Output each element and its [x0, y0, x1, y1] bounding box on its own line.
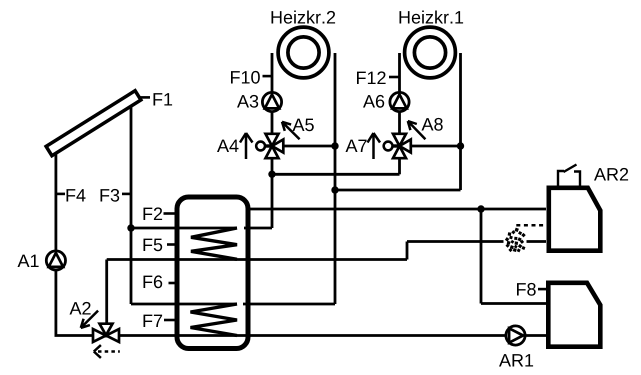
annotation arrow A8	[408, 121, 426, 139]
wire Heizkr.2 left upper x272	[271, 53, 274, 134]
tick F5	[167, 243, 176, 246]
wire solar bottom inlet y304	[131, 303, 237, 306]
label A2	[70, 302, 91, 315]
label F6	[144, 275, 163, 288]
label A4	[217, 140, 239, 152]
label F5	[144, 239, 163, 252]
pump A6	[390, 92, 409, 111]
storage tank	[177, 197, 248, 349]
wire collector right drop F3	[130, 99, 133, 304]
wire A2 riser	[105, 260, 108, 328]
label Heizkr.2	[272, 11, 336, 24]
pump A1	[46, 251, 65, 270]
wire valve return y174.3	[272, 173, 400, 176]
label F7	[144, 315, 163, 327]
tick F12	[389, 76, 399, 79]
mixing valve A4	[256, 134, 283, 158]
wire collector left drop	[55, 147, 58, 336]
wire A4 right port	[281, 145, 335, 148]
wire bottom main line	[55, 334, 547, 337]
wire tank right y228 stub	[244, 227, 272, 230]
tick F10	[263, 75, 273, 78]
radiator circle Heizkr.1	[405, 27, 456, 78]
wire Heizkr.2 right line x335	[334, 53, 337, 304]
label A5	[293, 119, 314, 132]
label F10	[231, 71, 260, 84]
label AR1	[499, 354, 533, 366]
junction node A4 right	[331, 142, 338, 149]
pump A3	[262, 92, 281, 111]
heat exchanger coil bottom	[191, 304, 238, 336]
junction node y209	[477, 205, 484, 212]
solar collector F1	[46, 91, 141, 156]
junction node below A4	[268, 171, 275, 178]
wire boiler F8 inlet y303.5	[481, 302, 546, 305]
wire sensor line y242 left	[407, 240, 504, 243]
wire solar top inlet y228	[131, 227, 237, 230]
label A1	[18, 255, 39, 267]
label AR2	[594, 168, 628, 181]
radiator circle Heizkr.2	[278, 27, 329, 78]
tick F7	[164, 319, 176, 322]
wire Heizkr.1 right line x460.5	[459, 53, 462, 190]
tick F8	[538, 288, 547, 291]
wire A7 right port	[409, 145, 461, 148]
label F4	[67, 189, 86, 201]
label Heizkr.1	[400, 11, 464, 24]
label F1	[154, 93, 173, 105]
annotation arrow A7	[368, 133, 381, 159]
annotation arrow A5	[282, 122, 300, 140]
tick F6	[169, 282, 177, 285]
label F12	[357, 71, 386, 84]
wire A7 valve bottom	[398, 157, 401, 174]
sensor dot cloud	[505, 228, 526, 253]
wire x481 drop	[480, 209, 483, 304]
label A3	[237, 95, 258, 108]
wire y190 link	[335, 189, 461, 192]
annotation arrow A4	[240, 133, 253, 159]
label A7	[346, 140, 367, 152]
label F8	[517, 283, 536, 296]
boiler F8	[548, 283, 600, 347]
junction node at F3/tank	[127, 224, 134, 231]
wire tank right y304 stub	[243, 303, 335, 306]
wire tank mid outlet y259.5	[107, 258, 407, 261]
label A8	[422, 118, 443, 131]
label F3	[101, 189, 120, 202]
switch symbol on AR2	[558, 165, 580, 187]
wire Heizkr.1 left upper x399.5	[398, 53, 401, 134]
wire jog x407	[406, 242, 409, 260]
junction node A7 right	[457, 142, 464, 149]
valve A2	[93, 324, 119, 342]
wire tank top outlet y209	[246, 208, 546, 211]
tick F3	[122, 193, 130, 196]
dashed flow arrow below A2	[98, 350, 120, 353]
wire A4 valve bottom x272	[271, 157, 274, 228]
mixing valve A7	[384, 134, 411, 158]
tick F2	[164, 212, 177, 215]
label F2	[144, 207, 163, 220]
tick F1	[139, 96, 150, 99]
pump AR1	[506, 326, 525, 345]
wire sensor line y242 right	[527, 240, 547, 243]
junction node x335 y190	[331, 186, 338, 193]
label A6	[363, 95, 384, 108]
annotation arrow A2	[81, 311, 98, 328]
wire dashed sensor line AR2	[516, 224, 545, 227]
boiler AR2	[549, 188, 601, 251]
heat exchanger coil top	[191, 228, 237, 259]
tick F4	[57, 193, 65, 196]
